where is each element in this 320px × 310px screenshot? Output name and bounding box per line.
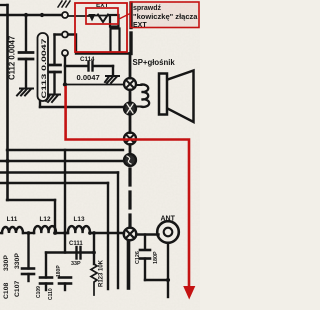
svg-text:C107: C107 [14,281,21,297]
jack contacts [68,3,131,54]
speaker body [159,74,167,115]
capacitor C113 [49,35,61,95]
bus L2 to connector 4 [0,160,125,162]
ANT jack [157,221,179,243]
svg-text:R123 10K: R123 10K [99,259,105,287]
red outer box jack [75,3,127,52]
labels C126 180P [135,251,159,264]
ANT sleeve wire [145,243,170,297]
svg-text:C111: C111 [69,241,83,247]
node junction on top bus [40,13,44,17]
svg-text:L12: L12 [39,216,50,223]
label box C113 [38,33,49,101]
connector 1 [124,78,136,90]
wire [129,115,132,133]
bus L3 [0,173,118,289]
wire top bus y15 [0,14,62,16]
jack EXT body [110,15,120,53]
svg-text:C113 0.0047: C113 0.0047 [41,38,48,99]
wire to ANT [137,233,159,235]
red callout line [118,13,131,20]
node pin C [62,50,68,56]
svg-text:L11: L11 [7,216,18,223]
capacitor 180P [140,235,150,281]
svg-text:C109: C109 [36,286,42,298]
connector 3 [124,133,136,145]
svg-text:0.0047: 0.0047 [77,73,100,82]
ground at C114 [105,76,119,83]
svg-text:C126: C126 [135,251,141,264]
capacitor C112 [19,15,33,88]
capacitor C114 [65,62,113,76]
thick stub below connector 5 [127,241,131,288]
wire left vertical x7 [0,5,55,233]
wire y84.5 to connector [65,84,124,86]
resistor R123 [91,233,97,295]
svg-text:L13: L13 [73,216,84,223]
wire C113 to pin B [55,33,62,35]
svg-text:330P: 330P [14,253,21,269]
wire y107 to connector [40,101,124,107]
svg-text:330P: 330P [3,255,10,271]
bus L1 [7,149,123,151]
capacitor under L11/L12 junction [22,233,34,281]
node dots on coil wire [27,231,96,254]
dashed cable [128,169,131,227]
red annotations [66,2,199,300]
svg-text:"kowiczkę" złącza: "kowiczkę" złącza [133,14,198,21]
node pin B [62,32,68,38]
label C112 value [8,36,17,80]
red highlight path [66,86,189,287]
wire vertical x65 mid [64,150,66,253]
svg-text:C114: C114 [80,56,95,63]
capacitor C110 [59,278,71,291]
node junction x7 [5,159,9,163]
capacitor C109 [40,278,52,291]
bus L4 [0,183,108,289]
speaker voice coil [142,84,150,106]
wire y252.5 [46,253,94,278]
bottom left labels [3,253,62,300]
svg-text:180P: 180P [153,251,159,264]
wire [129,145,132,154]
speaker wires [137,85,142,107]
labels L11 L12 L13 [7,216,85,223]
svg-text:180P: 180P [56,265,62,277]
red text box [131,2,200,28]
node junction at C112 tap [24,13,28,17]
red inner box jack [86,8,118,24]
svg-text:sprawdź: sprawdź [133,5,162,12]
capacitor C111 [77,247,81,259]
node pin A [62,12,68,18]
svg-text:C112 0.0047: C112 0.0047 [8,36,17,80]
wire [129,90,132,103]
connector column [129,54,132,79]
svg-text:SP+głośnik: SP+głośnik [133,58,176,67]
coil wire with L11 L12 L13 [0,226,124,233]
ground under C113 [46,95,60,103]
connector 2 [124,103,136,115]
red arrowhead [183,286,195,300]
ground under C112 [17,89,33,96]
connector 5 [124,228,137,241]
svg-text:C108: C108 [3,283,10,299]
svg-text:EXT: EXT [133,22,147,29]
svg-text:33P: 33P [71,261,81,267]
jack bottom wire [68,35,130,54]
connector 4 [124,154,136,166]
node junction below pin C [63,82,67,86]
svg-text:C110: C110 [48,288,54,300]
red texts [133,5,198,67]
wire pin C down [64,56,66,85]
speaker cone [168,71,194,123]
corner marks top [58,1,70,7]
